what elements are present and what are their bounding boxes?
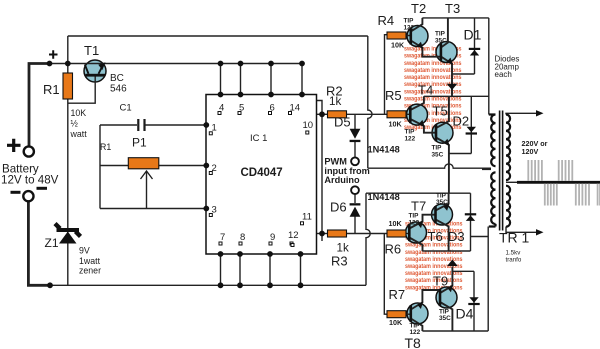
resistor R1 — [63, 73, 73, 99]
transformer TR1 primary winding — [489, 115, 496, 227]
svg-text:1N4148: 1N4148 — [368, 192, 400, 202]
wire bottom rail group4 — [422, 330, 488, 332]
svg-text:BC: BC — [110, 73, 124, 84]
svg-text:R1: R1 — [100, 142, 111, 152]
svg-text:TIP: TIP — [435, 30, 446, 37]
junction node dots P1 to IC pins — [203, 122, 209, 211]
transistor T9 body — [436, 287, 457, 308]
IC pin squares bottom — [219, 242, 293, 245]
svg-text:14: 14 — [290, 103, 301, 114]
transistor T6 body — [432, 204, 453, 225]
wire ground riser to T6 collector line with hop — [366, 193, 370, 285]
svg-text:6: 6 — [270, 103, 275, 114]
svg-text:TR 1: TR 1 — [499, 230, 530, 246]
wire C1 right to IC pin 1 — [145, 124, 206, 126]
svg-text:TIP: TIP — [432, 144, 443, 151]
svg-text:122: 122 — [405, 135, 416, 142]
svg-text:T3: T3 — [445, 1, 460, 16]
diode D6 — [350, 203, 361, 217]
svg-text:R4: R4 — [378, 13, 395, 28]
resistor R7 — [387, 311, 406, 318]
wire D5 anode drop — [354, 114, 356, 129]
wire transformer center tap line with hop over T5 emitter line — [368, 164, 490, 168]
wire top supply bus — [50, 63, 302, 65]
junction node dots top bus — [47, 61, 305, 67]
transistor T5 body — [432, 122, 453, 143]
wire IC top riser pin 4 — [220, 64, 222, 95]
svg-text:swagatam innovations: swagatam innovations — [404, 67, 462, 74]
transistor T4 body — [407, 104, 428, 125]
junction node dots ground bus — [47, 282, 303, 288]
resistor R2 — [328, 111, 347, 118]
svg-text:R3: R3 — [331, 254, 348, 269]
wire P1 wiper stem — [146, 172, 148, 209]
wire T5 collector riser — [436, 96, 449, 128]
transistor T8 body — [407, 303, 428, 324]
wire secondary bottom terminal — [506, 227, 537, 233]
IC1 CD4047 box — [206, 95, 317, 255]
wire R7 feed riser from R6 node — [384, 234, 387, 315]
wire IC top riser pin 5 — [240, 64, 242, 95]
diode D2 — [466, 127, 477, 135]
svg-text:Z1: Z1 — [45, 236, 59, 250]
battery minus signs — [11, 191, 21, 194]
svg-text:D5: D5 — [334, 115, 351, 130]
PWM input terminal 2 — [351, 186, 359, 194]
svg-text:D1: D1 — [464, 27, 482, 43]
wire battery plus riser (thick) — [29, 64, 50, 147]
svg-text:11: 11 — [302, 212, 312, 223]
svg-text:10K: 10K — [389, 318, 403, 327]
transistor T7 body — [406, 222, 427, 243]
svg-text:10K: 10K — [391, 40, 405, 49]
wire T2 collector to top rail — [411, 18, 423, 32]
junction node dot R3 — [319, 231, 325, 237]
wire T7 collector drop — [409, 238, 422, 252]
svg-text:swagatam innovations: swagatam innovations — [405, 249, 463, 256]
wire D2 cathode line to T5 emitter — [449, 153, 471, 155]
wire T3 collector riser — [441, 18, 448, 48]
svg-text:1k: 1k — [329, 95, 341, 108]
transistor T3 body — [436, 42, 457, 63]
wire group3 lower node line — [423, 250, 471, 252]
svg-text:each: each — [495, 70, 512, 79]
svg-text:swagatam innovations: swagatam innovations — [404, 74, 462, 81]
wire D2 vertical — [470, 96, 472, 153]
svg-text:zener: zener — [79, 266, 101, 276]
svg-text:T2: T2 — [411, 1, 426, 16]
svg-text:P1: P1 — [132, 136, 147, 150]
waveform PWM bars — [528, 160, 600, 206]
wire R1 bottom to zener to ground — [67, 99, 69, 285]
svg-text:D6: D6 — [330, 200, 347, 215]
svg-text:122: 122 — [409, 219, 420, 226]
wire C1 left from P1 box — [100, 124, 137, 126]
svg-text:546: 546 — [110, 84, 127, 95]
svg-text:122: 122 — [404, 24, 415, 31]
resistor R5 — [387, 111, 406, 118]
svg-text:35C: 35C — [439, 315, 451, 322]
svg-text:12: 12 — [288, 230, 299, 241]
wire battery minus riser and ground thick segment — [28, 201, 50, 285]
wire T8 emitter to T9 base — [411, 290, 440, 310]
wire R7 to T8 base — [406, 313, 411, 315]
svg-text:R6: R6 — [385, 242, 402, 257]
svg-text:½: ½ — [71, 119, 79, 129]
svg-text:D3: D3 — [448, 229, 465, 244]
wire R4 feed riser from R5 node — [385, 35, 388, 115]
T9 emitter arrow to primary bottom node — [447, 260, 458, 267]
svg-text:12V to 48V: 12V to 48V — [1, 174, 59, 187]
wire D4 anode line — [452, 270, 474, 272]
transistor T2 base bar and emitter arrow — [410, 28, 424, 50]
svg-text:C1: C1 — [120, 103, 132, 114]
wire D6 anode to R3 line — [354, 217, 356, 234]
svg-text:7: 7 — [220, 232, 225, 243]
svg-text:watt: watt — [70, 129, 88, 139]
wire IC top riser pin 14 — [301, 64, 303, 95]
svg-text:5: 5 — [239, 103, 244, 114]
wire top rail riser from supply bus — [67, 36, 69, 64]
transistor T3 base bar and emitter arrow — [440, 44, 453, 65]
svg-text:T8: T8 — [405, 335, 422, 349]
wire IC bottom riser pin 9 — [269, 254, 271, 285]
wire PWM terminal 2 to D6 cathode — [354, 194, 356, 203]
svg-text:T7: T7 — [411, 199, 426, 214]
diode D4 — [468, 297, 479, 305]
svg-text:1.5kv: 1.5kv — [506, 250, 522, 257]
wire T2 emitter to T3 base — [411, 41, 441, 57]
svg-text:D2: D2 — [453, 114, 470, 129]
svg-text:TIP: TIP — [409, 212, 420, 219]
potentiometer P1 — [128, 158, 159, 179]
wire T4 collector riser — [410, 96, 424, 110]
IC pin squares left — [209, 132, 212, 217]
wire R4 to T2 base — [406, 35, 411, 38]
wire R2 node to R5 with hop over center-tap riser — [347, 113, 388, 115]
svg-text:10K: 10K — [71, 108, 87, 118]
wire T9 collector drop — [440, 302, 452, 331]
svg-text:T1: T1 — [84, 43, 99, 58]
svg-text:35C: 35C — [436, 199, 448, 206]
wire IC output vertical link — [317, 101, 323, 242]
svg-text:1watt: 1watt — [79, 256, 101, 266]
svg-text:120V: 120V — [522, 147, 539, 156]
wire top rail group1 — [422, 17, 488, 19]
wire top frame rail to center-tap riser — [68, 35, 368, 37]
secondary output arrow bottom — [536, 229, 544, 235]
junction node dot R2 — [319, 111, 325, 117]
svg-text:CD4047: CD4047 — [241, 167, 283, 179]
secondary output arrow top — [536, 110, 544, 116]
wire center-tap riser with hop over R5 feed — [368, 36, 372, 168]
wire T7 emitter to T6 base — [409, 215, 435, 229]
transistor T8 base bar and emitter arrow — [410, 301, 424, 322]
svg-text:10K: 10K — [389, 119, 403, 128]
transistor T1 base bar and legs — [85, 62, 106, 76]
svg-text:TIP: TIP — [405, 128, 416, 135]
zener diode Z1 — [55, 224, 81, 244]
svg-text:3: 3 — [212, 205, 217, 216]
wire IC bottom riser pin 7 — [220, 254, 222, 285]
T3 emitter arrow to primary node — [447, 84, 458, 90]
wire ground bus — [50, 284, 366, 286]
svg-text:35C: 35C — [435, 37, 447, 44]
junction node dots IC top edge — [218, 92, 305, 98]
wire primary top riser — [488, 18, 490, 115]
supply plus sign — [49, 50, 58, 59]
svg-text:4: 4 — [219, 103, 224, 114]
wire secondary center tap — [506, 181, 517, 183]
IC pin squares right — [291, 131, 309, 247]
wire R5 to T4 base — [406, 113, 410, 115]
wire D4 vertical — [473, 271, 475, 331]
svg-text:T4: T4 — [418, 83, 433, 98]
wire R3 node to R6 with hop over ground riser — [347, 233, 388, 235]
svg-text:9: 9 — [270, 232, 275, 243]
diode D5 — [350, 129, 361, 142]
transistor T4 base bar and emitter arrow — [409, 106, 425, 127]
battery plus sign — [7, 139, 21, 152]
svg-text:T6: T6 — [428, 229, 443, 244]
svg-text:T9: T9 — [433, 274, 448, 289]
transistor T9 base bar and emitter arrow — [439, 284, 454, 306]
svg-text:D4: D4 — [456, 306, 474, 322]
wire primary top node line — [424, 95, 489, 97]
wire IC pin10 stub to R2 — [317, 113, 328, 115]
transformer core — [500, 111, 503, 231]
wire T9 emitter riser with arrow — [440, 267, 452, 294]
junction node dots IC bottom edge — [218, 251, 304, 257]
transistor T6 base bar and emitter arrow — [434, 203, 449, 223]
wire IC pin11 stub to R3 — [317, 233, 331, 235]
svg-text:T5: T5 — [433, 104, 448, 119]
svg-text:R1: R1 — [43, 82, 60, 97]
resistor R3 — [328, 230, 347, 237]
wire D5 cathode to PWM terminal — [354, 142, 356, 158]
wire primary bottom riser — [487, 227, 489, 332]
wire T5 emitter down — [436, 138, 449, 194]
transistor T2 body — [407, 26, 428, 47]
diode D1 — [469, 48, 480, 56]
watermark swagatam innovations block A — [404, 46, 462, 132]
battery plus terminal — [24, 146, 34, 156]
svg-text:10K: 10K — [389, 219, 403, 228]
transistor T5 base bar and emitter arrow — [435, 124, 450, 146]
wire D3 vertical — [470, 193, 472, 251]
transistor T1 body — [84, 60, 106, 82]
wire T6 collector line — [366, 192, 471, 194]
wire IC bottom riser pin 12 — [300, 254, 302, 285]
svg-text:9V: 9V — [79, 246, 90, 256]
waveform axis line — [517, 181, 600, 184]
svg-text:10: 10 — [303, 120, 314, 131]
svg-text:tranfo: tranfo — [506, 257, 522, 264]
wire primary bottom branch — [471, 236, 489, 238]
wire D1 vertical — [474, 18, 476, 74]
wire IC top riser pin 6 — [270, 64, 272, 95]
svg-text:Arduino: Arduino — [324, 175, 360, 185]
wire P1 track line to IC pin 2 — [100, 165, 206, 167]
wire secondary top terminal — [506, 113, 537, 114]
watermark swagatam innovations block B — [405, 220, 463, 291]
capacitor C1 — [137, 119, 145, 131]
svg-text:R5: R5 — [385, 88, 402, 103]
wire P1 box left edge — [99, 125, 101, 209]
transformer TR1 secondary winding — [506, 115, 510, 227]
wire IC bottom riser pin 8 — [239, 254, 241, 285]
svg-text:1N4148: 1N4148 — [368, 145, 400, 155]
svg-text:IC 1: IC 1 — [250, 133, 267, 144]
svg-text:8: 8 — [240, 232, 245, 243]
transistor T7 base bar and emitter arrow — [408, 220, 423, 241]
resistor R6 — [387, 230, 406, 237]
wire T6 emitter drop — [436, 220, 449, 252]
svg-text:2: 2 — [212, 163, 217, 174]
diode D3 — [465, 213, 476, 221]
wire T6 collector riser — [436, 193, 449, 210]
svg-text:R7: R7 — [389, 287, 406, 302]
svg-text:35C: 35C — [432, 151, 444, 158]
wire R6 to T7 base — [406, 233, 409, 235]
resistor R4 — [387, 32, 406, 39]
IC pin squares top — [218, 112, 292, 115]
wire T8 collector drop — [411, 319, 423, 332]
wire T4 emitter to T5 base — [410, 119, 436, 133]
wire T1 base path — [68, 77, 95, 104]
wire P1 box bottom to IC pin 3 — [100, 208, 206, 210]
wire center tap stub at coil — [482, 168, 491, 171]
wire T3 emitter down to primary node — [441, 57, 452, 97]
svg-text:1: 1 — [212, 123, 217, 134]
wire D1 anode line — [452, 73, 475, 75]
wire R1 top — [67, 64, 69, 74]
PWM input terminal 1 — [351, 157, 359, 165]
battery minus terminal — [23, 191, 33, 201]
svg-text:TIP: TIP — [404, 17, 415, 24]
